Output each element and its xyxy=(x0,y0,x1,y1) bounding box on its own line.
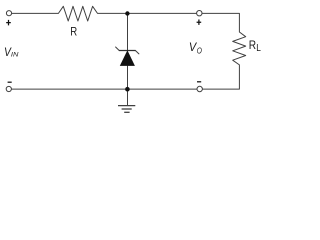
svg-text:R: R xyxy=(249,39,256,52)
svg-text:IN: IN xyxy=(11,51,19,59)
svg-text:R: R xyxy=(70,25,77,38)
svg-text:L: L xyxy=(256,43,261,54)
svg-text:O: O xyxy=(197,46,202,56)
